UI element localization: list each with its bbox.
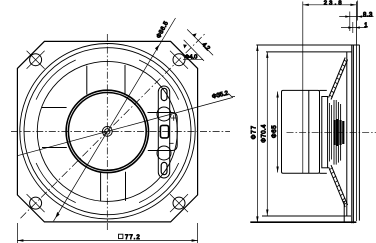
dim 77.2: ext line left xyxy=(16,223,18,243)
hole cross TR perpendicular xyxy=(170,51,188,69)
plus mark xyxy=(171,115,177,121)
centerline horizontal xyxy=(11,130,230,132)
hole cross BR xyxy=(170,194,188,212)
arrow phi65 top xyxy=(276,92,278,98)
cone upper line a xyxy=(329,58,346,98)
dim 4.2 arrow lower xyxy=(183,44,187,48)
dim 8.3 line xyxy=(339,16,373,18)
gasket line 4 / ext 23.8 right xyxy=(355,2,357,222)
window band outer circle xyxy=(37,61,177,201)
terminal plate stadium xyxy=(158,86,169,178)
window edge W bottom xyxy=(42,147,67,149)
flange top edge / ext phi77 xyxy=(256,44,359,46)
dim 23.8 line xyxy=(303,4,357,6)
terminal boss outline xyxy=(148,113,177,151)
mounting hole TR xyxy=(173,54,185,66)
bolt circle dim arrow TR xyxy=(155,45,159,51)
small mark left of side view xyxy=(229,94,236,97)
basket outer circle xyxy=(20,44,195,219)
front plate rect xyxy=(322,97,328,168)
gasket line 1 xyxy=(346,52,348,216)
bolt circle dim line xyxy=(54,18,176,221)
leader line for magnet diameter xyxy=(18,97,234,155)
ext 8.3 left xyxy=(349,12,351,32)
gasket bottom edge xyxy=(250,221,356,223)
dim line phi77 xyxy=(256,45,258,222)
svg-text:Φ65: Φ65 xyxy=(272,125,278,138)
cone end cap tick xyxy=(343,200,345,202)
hole cross BL perpendicular xyxy=(27,194,45,212)
corner boss arc NE xyxy=(139,60,179,100)
arrow phi77 top xyxy=(256,45,258,51)
bolt circle dim arrow BL xyxy=(55,212,59,218)
arrow 1 right xyxy=(355,26,360,28)
gasket line 5 xyxy=(358,45,360,221)
dim 77.2 arrow left xyxy=(17,239,23,241)
dim 1 line xyxy=(341,27,367,29)
window edge E top xyxy=(148,112,158,114)
leader shelf for 4.0 xyxy=(183,59,203,61)
gasket line 2 xyxy=(351,45,353,223)
frame back bottom edge extension xyxy=(320,172,327,174)
svg-text:23.8: 23.8 xyxy=(324,0,344,6)
arrow phi65 bottom xyxy=(276,167,278,173)
magnet internal edge xyxy=(308,90,310,173)
svg-text:Φ70.4: Φ70.4 xyxy=(262,124,268,143)
corner boss arc SE xyxy=(139,163,179,203)
arrow phi70.4 top xyxy=(266,52,268,58)
corner boss arc SW xyxy=(36,163,76,203)
centerline vertical xyxy=(106,34,108,232)
arrow 23.8 right xyxy=(350,4,356,6)
side centerline xyxy=(287,131,376,133)
dim line phi65 xyxy=(277,92,279,173)
arrow 1 left xyxy=(348,26,353,28)
cone lower hatch xyxy=(330,167,347,204)
frame back rect xyxy=(282,90,320,173)
window edge N right xyxy=(124,65,126,94)
svg-text:8.3: 8.3 xyxy=(363,13,373,19)
terminal center eyelet xyxy=(160,125,168,137)
arrow phi70.4 bottom xyxy=(266,210,268,216)
chamfer ext line xyxy=(187,29,213,55)
cone upper hatch xyxy=(330,60,347,97)
gasket line 3 xyxy=(352,45,354,223)
spider / center cluster xyxy=(334,100,341,165)
basket ring circle xyxy=(24,48,191,215)
gasket second edge / ext phi70.4 xyxy=(266,51,352,53)
window edge W top xyxy=(42,107,67,109)
window edge S right xyxy=(125,172,127,201)
arrow 23.8 left xyxy=(303,4,309,6)
cone lower line a xyxy=(329,167,346,207)
voice coil former lines xyxy=(329,103,331,162)
svg-text:Φ77: Φ77 xyxy=(252,125,258,139)
window edge S left xyxy=(100,172,102,201)
mounting hole TL xyxy=(30,54,42,66)
arrow phi77 bottom xyxy=(256,216,258,222)
dim 4.2 arrow upper xyxy=(192,33,196,37)
cone end vertical xyxy=(343,202,345,222)
terminal hole lower xyxy=(157,146,171,160)
terminal top eyelet xyxy=(161,88,167,100)
dim line phi70.4 xyxy=(266,52,268,216)
center dark blob xyxy=(335,119,344,146)
terminal hole upper xyxy=(157,107,171,121)
frame back top edge extension xyxy=(320,89,327,91)
mounting hole BR xyxy=(173,197,185,209)
pole vent outer circle xyxy=(102,126,112,136)
magnet ring outer circle xyxy=(66,90,148,172)
minus mark xyxy=(169,142,174,144)
svg-text:77.2: 77.2 xyxy=(125,235,141,241)
mounting hole BL xyxy=(30,197,42,209)
front view: square mounting flange with chamfered corners xyxy=(17,41,197,222)
magnet ring inner circle xyxy=(68,92,146,170)
window edge E bottom xyxy=(148,150,158,152)
pole vent inner circle xyxy=(105,129,110,134)
arrow 8.3 right xyxy=(358,15,363,17)
ext 1 left xyxy=(352,22,354,33)
frame bottom edge xyxy=(262,215,351,217)
dim 77.2 arrow right xyxy=(192,239,198,241)
cone upper line b xyxy=(331,60,348,100)
label 77.2 square symbol xyxy=(119,234,123,238)
dim 77.2: dim line xyxy=(17,240,197,242)
terminal bottom eyelet xyxy=(161,162,167,174)
cone lower line b xyxy=(331,165,348,205)
arrow 8.3 left xyxy=(345,15,350,17)
window edge N left xyxy=(86,66,88,95)
ext 8.3 right xyxy=(357,1,359,21)
hole cross TL xyxy=(27,51,45,69)
corner boss arc NW xyxy=(36,60,76,100)
chamfer dim line 4.2 xyxy=(184,40,204,61)
diagonal centerline BL-TR xyxy=(21,34,206,219)
dim 77.2: ext line right xyxy=(197,223,199,243)
ext line 23.8 left / washer edge xyxy=(302,2,304,174)
